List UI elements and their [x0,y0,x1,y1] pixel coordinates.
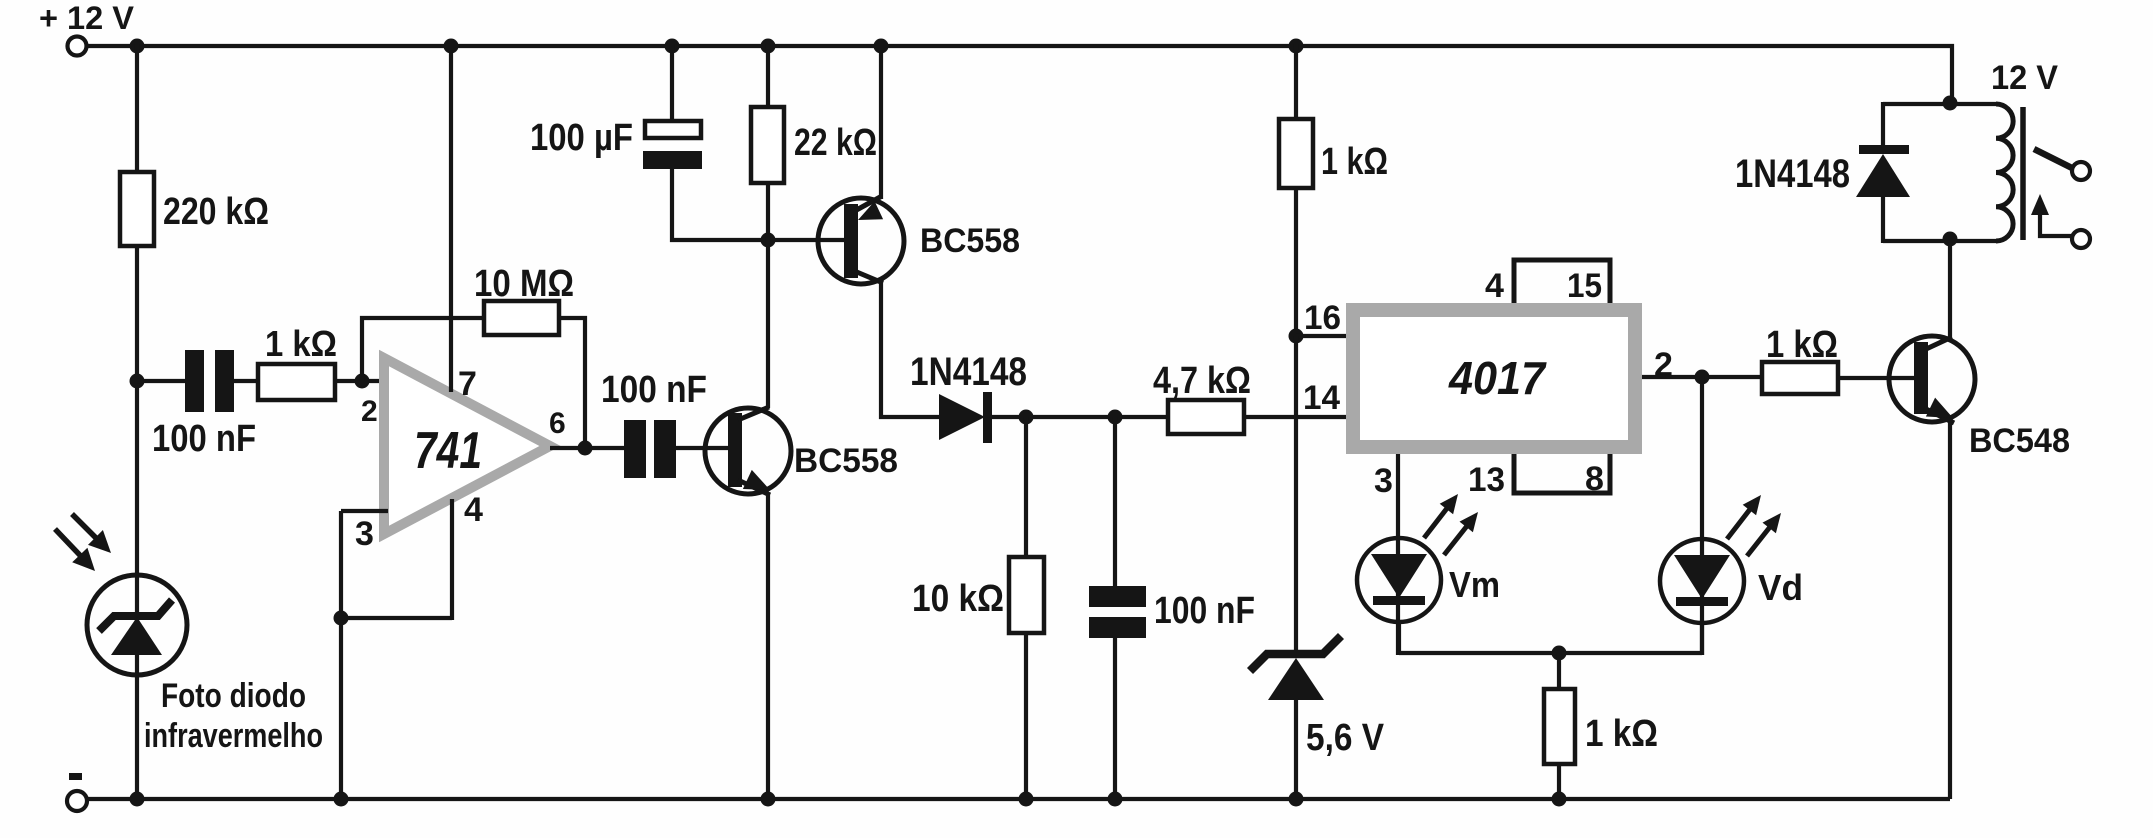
IC pin 4 label [1485,267,1504,305]
wire C4 bottom [1113,638,1117,799]
LED Vm circle [1357,538,1441,622]
svg-text:100 nF: 100 nF [152,418,256,460]
label 1 kOhm base [1766,324,1838,366]
wire top +12V rail [86,46,1952,102]
wire 10M to output [559,318,585,448]
svg-text:8: 8 [1585,460,1604,498]
svg-text:220 kΩ: 220 kΩ [163,191,269,233]
resistor R9 1k base [1762,362,1838,394]
wire Q3 emitter to rail [1948,421,1952,799]
op-amp pin 2 label [361,395,378,428]
label Vm [1449,564,1500,605]
wire LED common [1399,651,1702,655]
label 5,6 V [1306,717,1385,759]
wire pin3 ground drop [339,511,343,799]
zener D3 triangle [1268,658,1324,700]
svg-text:Vd: Vd [1758,567,1803,608]
LED Vd light arrow 1 [1727,495,1761,539]
zener D3 cathode bar [1250,636,1341,671]
wire Q2 collector riser [766,240,770,408]
node LED resistor junction [1552,646,1567,661]
node 10k junction [1019,410,1034,425]
svg-text:4: 4 [1485,267,1504,305]
label 100 nF timing [1154,590,1255,632]
svg-text:10 MΩ: 10 MΩ [474,263,574,305]
wire Vm bottom [1397,621,1401,655]
node Q1 emitter top rail [874,39,889,54]
label 1 kOhm input [265,323,337,364]
capacitor C3 100uF minus plate [643,151,702,169]
transistor Q1 base bar [844,204,858,278]
relay armature arrow [2031,194,2049,215]
wire pin2 node to Vd [1700,377,1704,655]
svg-text:1N4148: 1N4148 [1735,152,1850,196]
relay armature arm [2034,149,2072,168]
transistor Q1 collector [852,270,883,283]
wire 22k bottom [766,183,770,240]
node bottom rail left [130,792,145,807]
label BC558 lower [794,442,898,480]
wire Vd bottom [1700,622,1704,655]
label 741 [414,422,482,480]
svg-text:+ 12 V: + 12 V [39,0,135,36]
label 4017 [1448,352,1547,404]
svg-text:BC548: BC548 [1969,422,2070,460]
op-amp pin 7 label [458,365,477,403]
resistor R7 1k supply [1279,119,1313,188]
svg-text:4: 4 [464,491,483,529]
LED Vd circle [1660,539,1744,623]
node top rail 1k [1289,39,1304,54]
label 1N4148 signal [910,350,1027,394]
wire Q3 collector to relay [1948,240,1952,338]
wire pin3 4017 to Vm [1396,454,1400,655]
wire pin7 supply [449,46,453,392]
capacitor C2 100nF plate 2 [654,420,676,478]
photodiode D1 cathode bar [99,600,172,631]
IC pin 4-15 top bracket [1514,260,1610,303]
svg-text:15: 15 [1567,267,1602,305]
wire Q1 emitter to rail [879,46,883,199]
IC pin 3 label [1374,462,1393,500]
IC pin 2 label [1654,346,1673,384]
svg-text:2: 2 [361,395,378,428]
node zener bottom rail [1289,792,1304,807]
wire zener to ground [1294,698,1298,799]
relay common stub [2040,212,2072,236]
svg-text:14: 14 [1303,379,1340,417]
transistor Q2 emitter [738,470,770,495]
node top rail 100uF [665,39,680,54]
transistor Q3 circle [1889,336,1975,422]
transistor Q1 circle [818,198,904,284]
svg-text:1 kΩ: 1 kΩ [1585,713,1658,755]
wire pin2 out [1642,375,1764,379]
svg-text:BC558: BC558 [920,222,1020,260]
label 100 uF [530,117,633,159]
node top rail / 220k [130,39,145,54]
transistor Q3 collector [1924,337,1952,350]
node top rail 22k [761,39,776,54]
wire D2 to 4.7k [991,415,1170,419]
wire relay top [1883,102,1998,106]
label 1 kOhm LED [1585,713,1658,755]
transistor Q2 circle [705,408,791,494]
node pin7 top rail [444,39,459,54]
svg-text:3: 3 [355,515,374,553]
diode D2 cathode bar [983,392,992,443]
wire pin3-pin4 bridge [341,616,452,620]
node input junction [130,374,145,389]
resistor 220k [120,172,154,246]
svg-text:5,6 V: 5,6 V [1306,717,1385,759]
svg-text:6: 6 [549,407,566,440]
label 1 kOhm supply [1321,141,1388,183]
relay NO contact terminal [2072,162,2090,180]
wire 100uF bottom to Q1 base [672,168,845,240]
op-amp pin 4 label [464,491,483,529]
node LED resistor bottom rail [1552,792,1567,807]
wire 4.7k to pin14 [1244,415,1348,419]
svg-text:12 V: 12 V [1991,59,2058,97]
svg-text:10 kΩ: 10 kΩ [912,578,1004,620]
LED Vm triangle [1371,554,1427,598]
LED Vm cathode bar [1373,596,1425,605]
resistor R3 10M feedback [484,301,559,335]
relay K1 coil [1996,104,2013,241]
LED Vm light arrow 1 [1424,494,1458,538]
wire R2 to op-amp pin2 [335,379,388,383]
diode D4 triangle [1856,154,1910,197]
wire 220k top [135,44,139,174]
node 10k bottom rail [1019,792,1034,807]
label Vd [1758,567,1803,608]
wire 1k-top to node16 [1294,188,1298,336]
node Q2 emitter bottom rail [761,792,776,807]
node C4 junction [1108,410,1123,425]
label infravermelho [144,717,323,755]
relay common terminal [2072,230,2090,248]
label 4,7 kOhm [1153,360,1251,402]
wire pin16 [1296,334,1348,338]
svg-text:4017: 4017 [1448,352,1547,404]
svg-text:1N4148: 1N4148 [910,350,1027,394]
svg-text:741: 741 [414,422,482,480]
label 10 kOhm [912,578,1004,620]
wire bottom ground rail [87,797,1950,801]
IC pin 15 label [1567,267,1602,305]
wire 22k top [766,44,770,109]
IC pin 14 label [1303,379,1340,417]
capacitor C2 100nF plate 1 [624,420,646,478]
label 22 kOhm [794,122,877,164]
transistor Q2 base bar [728,413,742,487]
node relay bottom [1943,232,1958,247]
wire LED resistor top [1557,653,1561,691]
transistor Q3 emitter [1924,398,1954,423]
svg-text:1 kΩ: 1 kΩ [265,323,337,364]
wire R9 to Q3 base [1838,376,1916,380]
photodiode light arrow 1 [72,514,111,553]
LED Vd triangle [1674,555,1730,599]
svg-text:100 nF: 100 nF [1154,590,1255,632]
wire flyback top [1881,102,1885,149]
LED Vd cathode bar [1676,597,1728,606]
wire 1k-top upper [1294,44,1298,121]
capacitor C4 100nF plate 1 [1089,586,1146,607]
transistor Q3 base bar [1914,342,1928,414]
wire C4 top [1113,417,1117,588]
node pin3 bottom rail [334,792,349,807]
photodiode D1 circle [87,575,187,675]
label 12 V relay [1991,59,2058,97]
wire LED resistor bottom [1557,762,1561,799]
IC pin 16 label [1304,299,1341,337]
relay core bar [2020,107,2026,240]
wire 10k bottom [1024,631,1028,799]
node pin2 junction [1695,370,1710,385]
label Foto diodo [161,677,306,715]
wire op-amp output [550,446,626,450]
wire 220k bottom to photodiode branch [135,244,139,799]
wire C2 to Q2 base [676,446,730,450]
capacitor C4 100nF plate 2 [1089,617,1146,638]
svg-text:16: 16 [1304,299,1341,337]
node C4 bottom rail [1108,792,1123,807]
IC pin 13 label [1468,461,1505,499]
svg-text:4,7 kΩ: 4,7 kΩ [1153,360,1251,402]
label 220 kOhm [163,191,269,233]
wire relay bottom [1883,239,1998,243]
svg-text:BC558: BC558 [794,442,898,480]
diode D2 1N4148 triangle [939,394,985,440]
wire feedback riser [362,318,486,381]
node relay top [1943,96,1958,111]
svg-text:Vm: Vm [1449,564,1500,605]
negative input terminal [67,791,87,811]
wire zener riser [1294,336,1298,653]
svg-text:1 kΩ: 1 kΩ [1766,324,1838,366]
wire input node to C1 [137,379,187,383]
resistor R8 1k LED [1544,689,1575,764]
minus supply label [69,773,82,780]
photodiode D1 triangle [111,617,162,655]
wire pin3 stub [341,509,388,513]
IC U2 4017 body [1353,310,1635,447]
svg-text:infravermelho: infravermelho [144,717,323,755]
svg-text:7: 7 [458,365,477,403]
label 100 nF output [601,369,707,411]
LED Vm light arrow 2 [1444,512,1478,555]
+12V supply label [39,0,135,36]
label 100 nF input [152,418,256,460]
op-amp pin 3 label [355,515,374,553]
node op-amp input [355,374,370,389]
node Q1 base junction [761,233,776,248]
label BC548 [1969,422,2070,460]
wire pin4 riser [450,499,454,620]
label BC558 upper [920,222,1020,260]
op-amp U1 741 triangle [384,358,550,534]
resistor R4 22k [751,107,784,183]
svg-text:100 nF: 100 nF [601,369,707,411]
svg-text:Foto diodo: Foto diodo [161,677,306,715]
svg-text:13: 13 [1468,461,1505,499]
wire flyback bottom [1881,195,1885,243]
IC pin 8 label [1585,460,1604,498]
node pin3 ground junction [334,611,349,626]
node op-amp output [578,441,593,456]
svg-text:22 kΩ: 22 kΩ [794,122,877,164]
node pin16 junction [1289,329,1304,344]
wire 100uF top [670,44,674,123]
svg-text:100 µF: 100 µF [530,117,633,159]
diode D4 cathode bar [1859,145,1909,154]
transistor Q1 emitter [851,196,883,220]
wire Q2 emitter to ground [766,493,770,799]
IC pin 13-8 bottom bracket [1514,454,1610,493]
wire C1 to R2 [234,379,260,383]
wire Q1 collector down [881,282,941,417]
op-amp pin 6 label [549,407,566,440]
photodiode light arrow 2 [55,529,95,571]
label 10 MOhm [474,263,574,305]
resistor R2 1k input [258,364,335,400]
svg-text:3: 3 [1374,462,1393,500]
capacitor C3 100uF plus plate [645,121,701,138]
+12V input terminal [68,37,87,56]
label 1N4148 relay [1735,152,1850,196]
wire 10k top [1024,417,1028,559]
svg-text:1 kΩ: 1 kΩ [1321,141,1388,183]
transistor Q2 collector [738,407,769,420]
capacitor C1 100nF plate 1 [185,350,204,412]
resistor R6 4.7k [1168,400,1244,434]
resistor R5 10k [1009,557,1044,633]
capacitor C1 100nF plate 2 [215,350,234,412]
LED Vd light arrow 2 [1747,513,1781,556]
